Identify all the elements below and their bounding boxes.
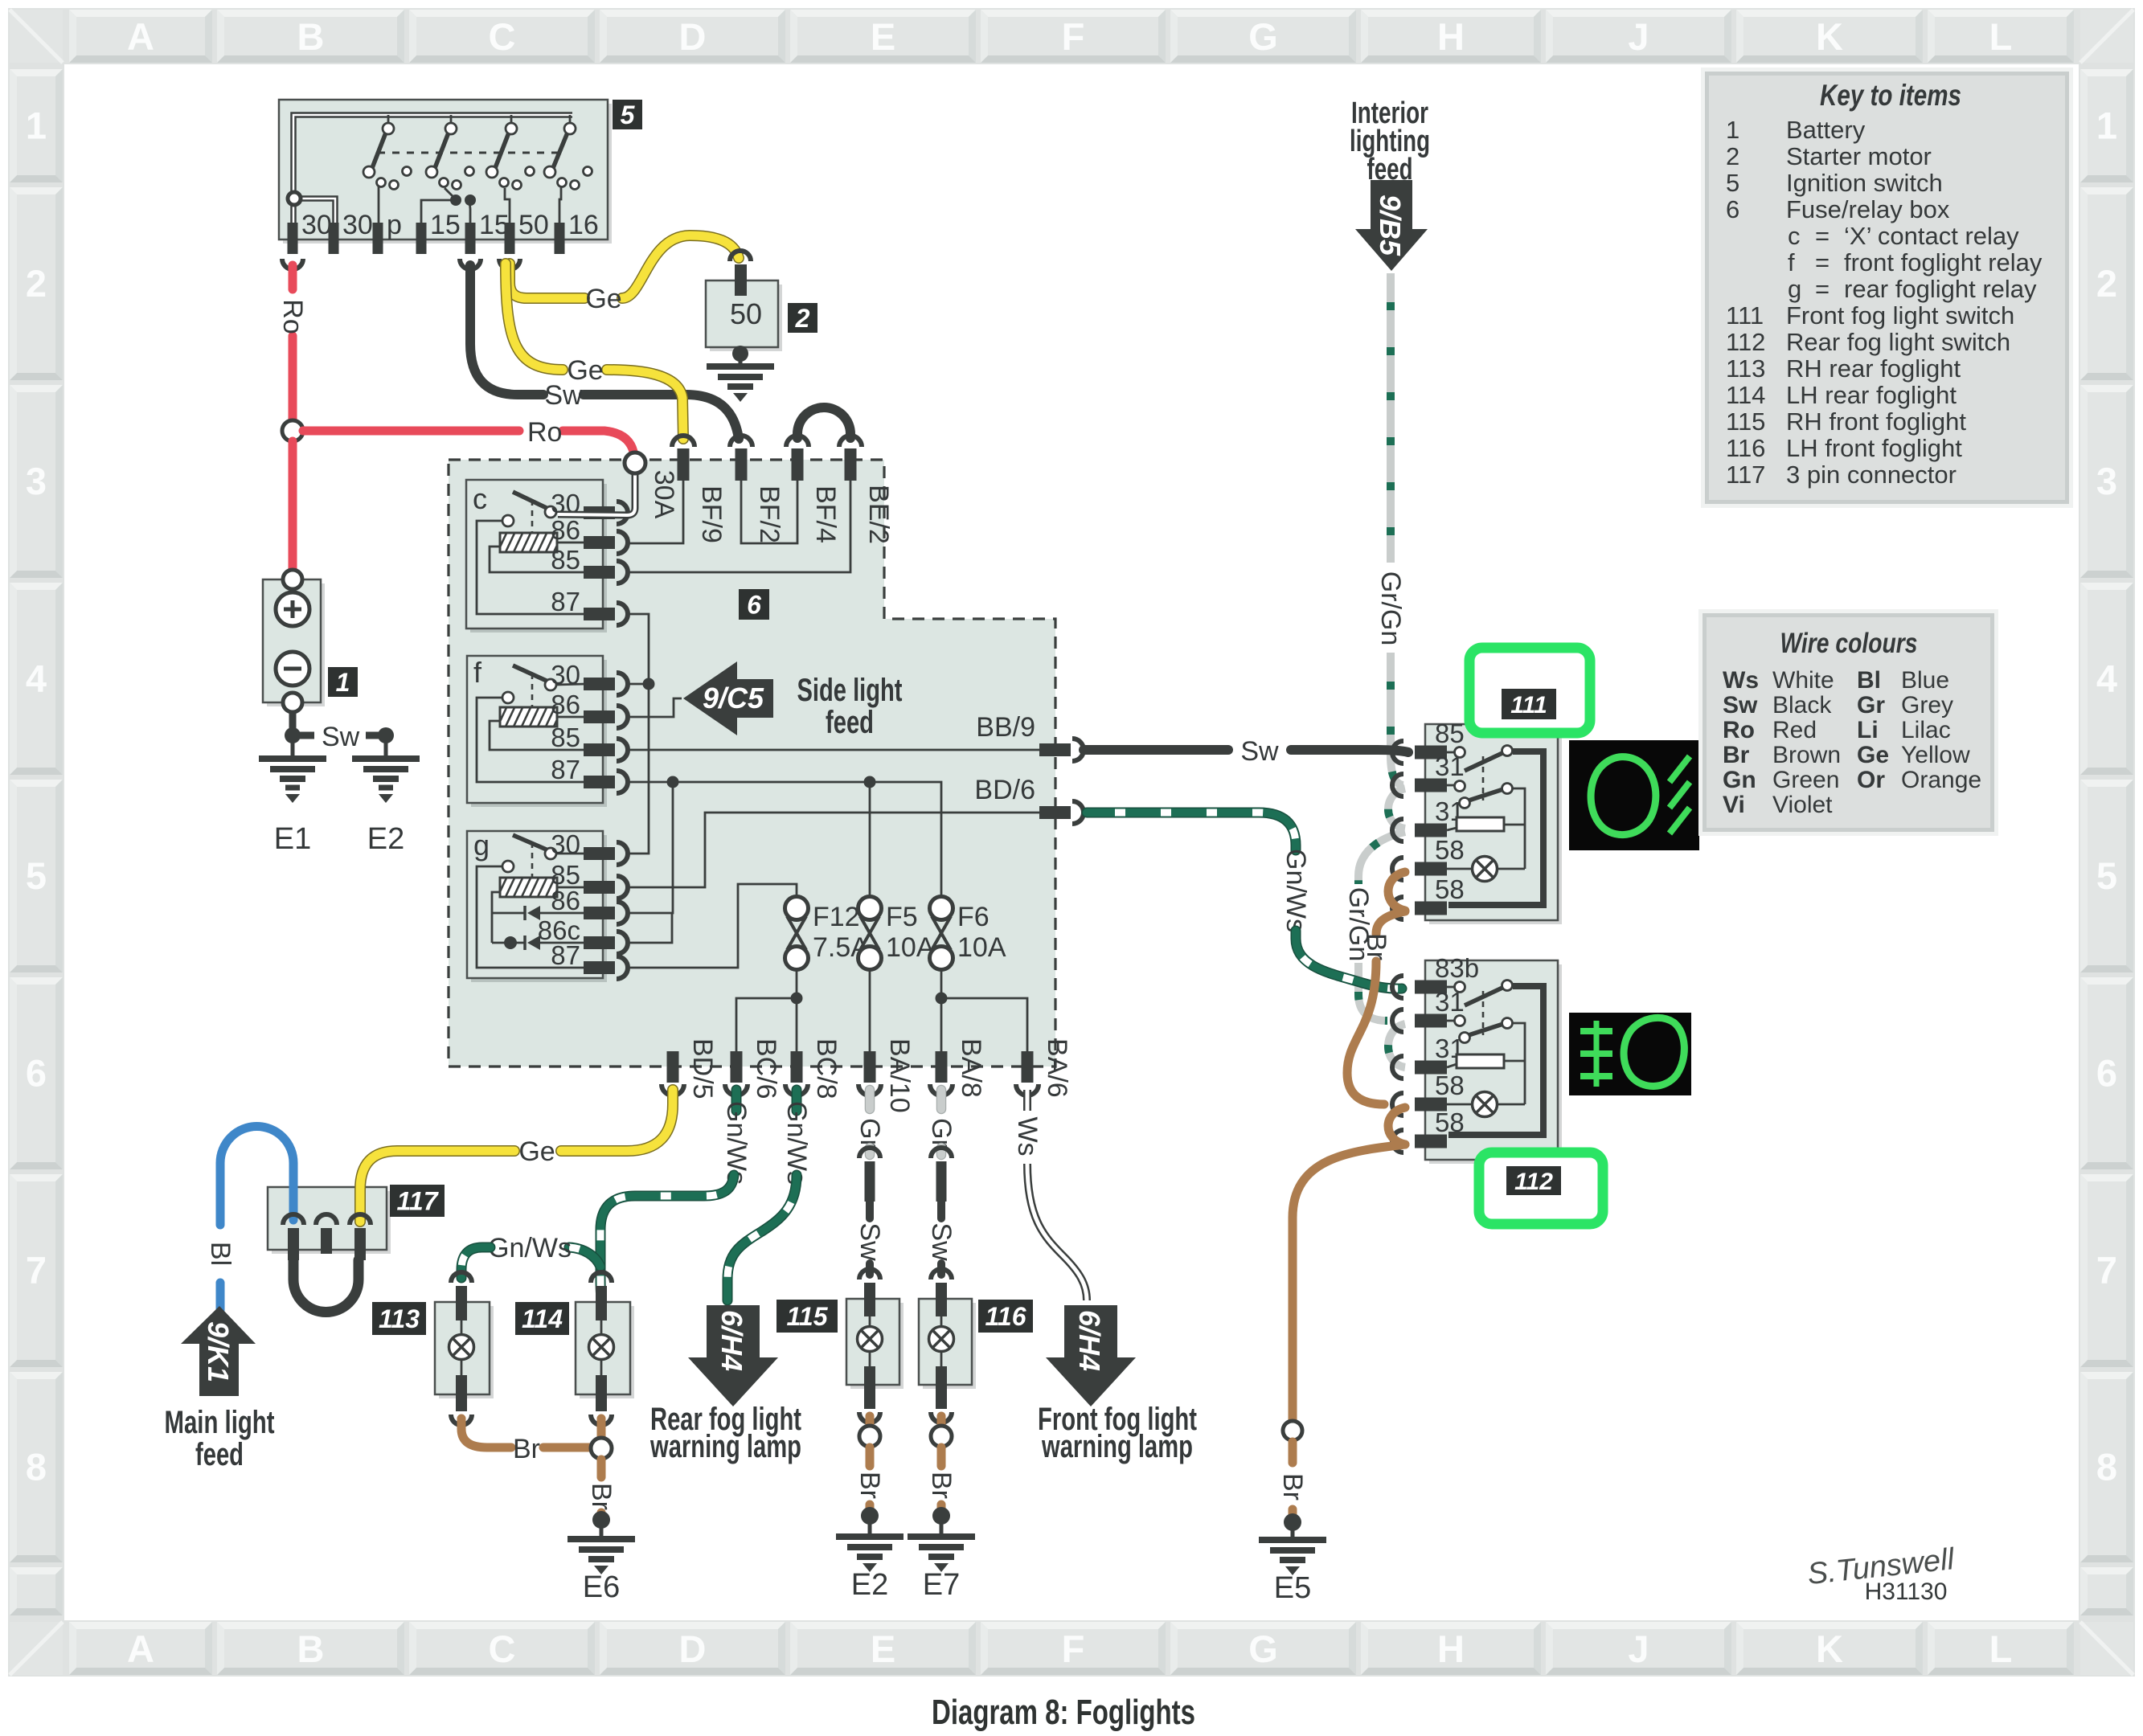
relay f pin 85 xyxy=(551,723,628,761)
wire Br to ground E6 xyxy=(586,1460,617,1529)
relay g switch xyxy=(502,835,585,877)
wire Ge yellow ignition 50 to starter xyxy=(510,235,739,314)
relay c coil xyxy=(489,531,563,554)
wire Bl blue main light feed to connector 117 xyxy=(205,1127,293,1311)
relay c switch xyxy=(502,492,556,533)
svg-text:3: 3 xyxy=(2096,460,2117,502)
ignition pins 30 30 p 15 15 50 16 xyxy=(288,210,599,254)
svg-text:116: 116 xyxy=(1726,434,1765,462)
svg-text:E2: E2 xyxy=(851,1568,888,1602)
switch 112 pin 83b xyxy=(1392,953,1479,998)
svg-text:Rear fog light switch: Rear fog light switch xyxy=(1786,328,2010,356)
RH front foglight 115 xyxy=(846,1269,904,1423)
svg-text:Sw: Sw xyxy=(1240,736,1279,767)
svg-text:K: K xyxy=(1816,1627,1843,1670)
arrow 9/B5 xyxy=(1355,180,1428,271)
caption xyxy=(932,1693,1195,1732)
ignition switch 5 xyxy=(279,100,612,244)
svg-text:A: A xyxy=(127,15,154,58)
svg-text:Br: Br xyxy=(586,1483,617,1510)
svg-text:6: 6 xyxy=(1726,195,1739,223)
svg-text:58: 58 xyxy=(1435,835,1465,865)
svg-text:2: 2 xyxy=(1726,142,1739,170)
svg-text:117: 117 xyxy=(1726,461,1765,489)
svg-text:BD/5: BD/5 xyxy=(687,1038,718,1099)
internal wire BF/2 to BF/4 xyxy=(741,481,797,543)
svg-text:30: 30 xyxy=(301,210,332,240)
label 5 xyxy=(613,100,642,129)
svg-text:Ro: Ro xyxy=(527,417,562,448)
switch 112 pin 58 xyxy=(1392,1071,1465,1116)
label 6 xyxy=(739,589,769,620)
wire Br 111 to 112 xyxy=(1347,911,1405,1104)
svg-text:86: 86 xyxy=(551,515,580,545)
svg-text:rear foglight relay: rear foglight relay xyxy=(1844,275,2037,303)
svg-text:BC/6: BC/6 xyxy=(751,1038,781,1099)
ignition internal wires to pins xyxy=(379,186,561,223)
wire Sw to front foglight x=1082 xyxy=(854,1202,885,1275)
label 114 xyxy=(515,1302,569,1335)
wire Gn/Ws BC/6 to rear foglights 113 114 xyxy=(600,1090,752,1297)
svg-text:15: 15 xyxy=(430,210,461,240)
svg-text:10A: 10A xyxy=(957,932,1006,963)
relay g pin 85 xyxy=(551,860,628,899)
svg-text:1: 1 xyxy=(2096,104,2117,147)
wire Ro red vertical from ignition 30 xyxy=(277,265,308,420)
svg-text:30: 30 xyxy=(551,660,580,690)
black jumper wire under 117 xyxy=(293,1260,359,1312)
front fog warning arrow 6/H4 xyxy=(1038,1305,1197,1464)
svg-text:c: c xyxy=(473,482,487,515)
svg-text:9/K1: 9/K1 xyxy=(202,1321,235,1382)
wire Gr BA/8 to inline connector xyxy=(926,1090,957,1155)
svg-text:117: 117 xyxy=(396,1187,439,1216)
ignition switch contacts xyxy=(363,115,592,190)
switch 111 pin 58 xyxy=(1392,874,1465,919)
relay g pin 86 xyxy=(551,886,628,924)
label 1 xyxy=(328,667,358,697)
wire Br 112 to ground E5 xyxy=(1277,1144,1405,1531)
svg-text:8: 8 xyxy=(26,1446,47,1488)
svg-text:Lilac: Lilac xyxy=(1901,717,1951,743)
fuse F6 10A xyxy=(930,897,1006,970)
svg-text:Gn: Gn xyxy=(1723,767,1756,793)
relay f box xyxy=(467,656,607,807)
svg-text:115: 115 xyxy=(786,1302,828,1331)
starter motor 2 xyxy=(706,251,782,351)
svg-text:86: 86 xyxy=(551,886,580,915)
svg-text:Fuse/relay box: Fuse/relay box xyxy=(1786,195,1950,223)
relay f pin 87 xyxy=(551,755,628,793)
svg-text:J: J xyxy=(1628,15,1649,58)
switch 111 pin 31 xyxy=(1392,751,1465,796)
svg-text:f: f xyxy=(1788,248,1795,276)
front fog icon panel xyxy=(1569,740,1699,850)
svg-text:Sw: Sw xyxy=(854,1222,885,1261)
svg-text:5: 5 xyxy=(26,854,47,897)
3 pin connector 117 pins xyxy=(283,1214,371,1260)
svg-text:BF/2: BF/2 xyxy=(754,485,785,543)
svg-text:87: 87 xyxy=(551,587,580,616)
svg-text:Ge: Ge xyxy=(1857,742,1889,768)
svg-text:Red: Red xyxy=(1772,717,1817,743)
label 2 xyxy=(788,303,817,333)
svg-text:J: J xyxy=(1628,1627,1649,1670)
svg-text:112: 112 xyxy=(1726,328,1765,356)
svg-text:Side light: Side light xyxy=(797,673,903,708)
node junction on Ro xyxy=(282,420,303,441)
svg-text:H: H xyxy=(1437,1627,1465,1670)
wire Gn/Ws branch to 113 xyxy=(461,1233,600,1278)
fuse/relay box 6 outline xyxy=(449,460,1055,1067)
inline connector on front foglight wire x=1082 xyxy=(859,1148,880,1202)
svg-text:6: 6 xyxy=(2096,1052,2117,1095)
svg-text:58: 58 xyxy=(1435,1071,1465,1100)
pin BC/6 xyxy=(725,1038,781,1099)
junction connector circle xyxy=(591,1438,612,1459)
internal wire relay c 87 to f 30 and g 30 xyxy=(627,614,655,854)
rear fog icon panel xyxy=(1569,1013,1691,1095)
svg-text:Ge: Ge xyxy=(567,355,603,386)
relay f pin 30 xyxy=(551,660,628,695)
svg-text:Battery: Battery xyxy=(1786,116,1866,144)
svg-text:F5: F5 xyxy=(886,902,918,932)
svg-text:10A: 10A xyxy=(886,932,935,963)
svg-text:Black: Black xyxy=(1772,692,1832,719)
svg-text:115: 115 xyxy=(1726,407,1765,436)
svg-text:30: 30 xyxy=(551,829,580,859)
switch 111 internals xyxy=(1447,746,1543,906)
svg-text:Gr: Gr xyxy=(1857,692,1885,719)
pin BA/10 xyxy=(858,1038,915,1113)
svg-text:30: 30 xyxy=(342,210,373,240)
wire Sw black ignition 15 to fusebox BF/2 xyxy=(470,265,739,439)
svg-text:Bl: Bl xyxy=(1857,667,1881,694)
LH rear foglight 114 xyxy=(576,1272,634,1425)
svg-text:BA/8: BA/8 xyxy=(956,1038,986,1098)
switch 111 pin 85 xyxy=(1392,719,1465,764)
wire Gr/Gn from 9/B5 down to switch 111 xyxy=(1375,273,1406,785)
svg-text:Br: Br xyxy=(513,1434,540,1464)
svg-text:30A: 30A xyxy=(649,470,679,519)
svg-text:F12: F12 xyxy=(813,902,860,932)
svg-text:g: g xyxy=(1788,275,1801,303)
svg-text:Yellow: Yellow xyxy=(1901,742,1970,768)
svg-text:E2: E2 xyxy=(367,822,404,856)
svg-text:A: A xyxy=(127,1627,154,1670)
pin BF/4 xyxy=(786,436,841,543)
wire Br loop 112 pin58 to pin58 xyxy=(1388,1108,1405,1144)
svg-text:9/B5: 9/B5 xyxy=(1374,194,1407,256)
ground E5 xyxy=(1259,1522,1326,1605)
wires below fuses to bottom pins xyxy=(736,969,1027,1051)
relay g coil xyxy=(489,876,563,899)
svg-text:LH rear foglight: LH rear foglight xyxy=(1786,381,1957,409)
relay f switch xyxy=(502,665,556,706)
svg-text:Main light: Main light xyxy=(165,1405,275,1440)
svg-text:C: C xyxy=(489,1627,516,1670)
svg-text:5: 5 xyxy=(2096,854,2117,897)
svg-text:111: 111 xyxy=(1726,301,1764,330)
svg-text:50: 50 xyxy=(518,210,549,240)
ground E2 xyxy=(352,735,420,856)
svg-text:F: F xyxy=(1062,15,1085,58)
ground E7 xyxy=(908,1516,975,1602)
wire Br front foglight to ground E7 xyxy=(926,1416,957,1525)
rear fog light switch 112 box xyxy=(1425,960,1562,1164)
svg-text:Gn/Ws: Gn/Ws xyxy=(488,1233,572,1263)
svg-text:Br: Br xyxy=(1277,1473,1308,1501)
ignition internal rail (white wire from pin 30) xyxy=(288,115,572,223)
internal wire BE/2 to relay c 85 xyxy=(627,481,850,572)
svg-text:LH front foglight: LH front foglight xyxy=(1786,434,1962,462)
relay c internal wires xyxy=(477,521,585,614)
svg-text:E: E xyxy=(871,1627,895,1670)
front fog light switch 111 box xyxy=(1425,724,1562,924)
svg-text:3 pin connector: 3 pin connector xyxy=(1786,461,1957,489)
wire Sw to front foglight x=1171 xyxy=(926,1202,957,1275)
wire Gn/Ws BD/6 to switch 112 pin 83b xyxy=(1087,813,1402,989)
wire Gr/Gn loop 111 pin31 to pin31 xyxy=(1388,788,1405,829)
svg-text:7: 7 xyxy=(2096,1249,2117,1292)
svg-text:87: 87 xyxy=(551,940,580,970)
svg-text:85: 85 xyxy=(551,723,580,752)
svg-text:113: 113 xyxy=(379,1304,420,1333)
svg-text:Ws: Ws xyxy=(1723,667,1759,694)
main light feed arrow 9/K1 xyxy=(165,1306,275,1472)
wire Sw black BB/9 to switch 111 pin 85 xyxy=(1084,736,1408,767)
label 115 xyxy=(776,1300,838,1333)
svg-text:Sw: Sw xyxy=(926,1222,957,1261)
svg-text:E1: E1 xyxy=(274,822,311,856)
pin BC/8 xyxy=(785,1038,842,1099)
svg-text:Ws: Ws xyxy=(1012,1116,1043,1156)
svg-text:Li: Li xyxy=(1857,717,1879,743)
inline connector on front foglight wire x=1171 xyxy=(931,1148,952,1202)
switch 111 pin 58 xyxy=(1392,835,1465,880)
svg-text:BF/9: BF/9 xyxy=(696,485,727,543)
internal wire relay f 87 to fuses F5 F6 and relay g 86 xyxy=(627,776,941,914)
svg-text:Front fog light switch: Front fog light switch xyxy=(1786,301,2014,330)
svg-text:feed: feed xyxy=(195,1437,244,1472)
switch 111 pin 31 xyxy=(1392,796,1465,841)
wire Br 113 to junction xyxy=(461,1419,590,1464)
relay f coil xyxy=(489,706,563,728)
svg-text:Br: Br xyxy=(926,1472,957,1499)
pin BF/9 xyxy=(672,436,727,543)
svg-text:1: 1 xyxy=(1726,116,1739,144)
svg-text:Ge: Ge xyxy=(585,284,621,314)
svg-text:6: 6 xyxy=(747,591,761,620)
internal wire BD/6 to relay g 85 xyxy=(627,813,1041,887)
svg-text:112: 112 xyxy=(1514,1169,1553,1195)
relay c pin 87 xyxy=(551,587,628,625)
svg-text:4: 4 xyxy=(26,657,47,700)
relay f pin 86 xyxy=(551,690,628,728)
svg-text:16: 16 xyxy=(568,210,599,240)
pin BF/2 xyxy=(730,436,785,543)
svg-text:5: 5 xyxy=(621,100,636,129)
fuse F12 7.5A xyxy=(785,897,870,970)
relay g pin 30 xyxy=(551,829,628,865)
svg-text:6/H4: 6/H4 xyxy=(715,1310,748,1371)
svg-text:83b: 83b xyxy=(1435,953,1479,983)
ground E2 xyxy=(836,1516,904,1602)
svg-text:BA/10: BA/10 xyxy=(884,1038,915,1113)
svg-text:1: 1 xyxy=(26,104,47,147)
svg-text:g: g xyxy=(473,829,490,862)
svg-text:85: 85 xyxy=(1435,719,1465,748)
wire Gn/Ws BC/8 to rear fog warning arrow xyxy=(727,1090,812,1300)
svg-text:Violet: Violet xyxy=(1772,792,1833,818)
svg-text:Orange: Orange xyxy=(1901,767,1981,793)
label 117 xyxy=(390,1185,445,1217)
svg-text:=: = xyxy=(1815,275,1830,303)
svg-text:D: D xyxy=(679,1627,707,1670)
svg-text:Key to items: Key to items xyxy=(1820,79,1961,112)
side light feed arrow 9/C5 xyxy=(683,661,903,740)
svg-text:E5: E5 xyxy=(1274,1571,1311,1605)
relay g pin 87 xyxy=(551,940,628,979)
wire Ws BA/6 to front fog warning arrow xyxy=(1012,1090,1087,1300)
internal wire side light feed to relay f 86 xyxy=(627,698,682,717)
internal wire BF/9 to relay c 86 xyxy=(627,481,683,543)
connector arcs under ignition pins xyxy=(282,259,520,269)
svg-text:Ge: Ge xyxy=(518,1136,555,1167)
black jumper wire BF/4 to BE/2 xyxy=(797,407,850,438)
svg-text:114: 114 xyxy=(1726,381,1765,409)
svg-text:Brown: Brown xyxy=(1772,742,1841,768)
svg-text:Diagram 8: Foglights: Diagram 8: Foglights xyxy=(932,1693,1195,1732)
svg-text:E6: E6 xyxy=(583,1570,620,1604)
pin BE/2 xyxy=(839,436,894,544)
svg-text:Starter motor: Starter motor xyxy=(1786,142,1932,170)
internal wire relay f 85 to BB/9 xyxy=(627,749,1041,751)
svg-text:Gn/Ws: Gn/Ws xyxy=(1280,849,1311,932)
switch 112 pin 31 xyxy=(1392,1034,1465,1079)
svg-text:BE/2: BE/2 xyxy=(863,485,894,544)
svg-text:Blue: Blue xyxy=(1901,667,1949,694)
starter ground xyxy=(707,346,774,402)
svg-text:H: H xyxy=(1437,15,1465,58)
svg-text:L: L xyxy=(1989,15,2013,58)
svg-text:7: 7 xyxy=(26,1249,47,1292)
svg-text:2: 2 xyxy=(26,262,47,305)
key to items box xyxy=(1701,68,2073,508)
svg-text:p: p xyxy=(387,210,402,240)
switch 112 internals xyxy=(1447,981,1543,1136)
switch 112 pin 31 xyxy=(1392,987,1465,1032)
svg-text:front foglight relay: front foglight relay xyxy=(1844,248,2043,276)
svg-text:K: K xyxy=(1816,15,1843,58)
svg-text:111: 111 xyxy=(1510,692,1547,719)
wire Ro red horizontal to fuse box 30A xyxy=(303,417,633,452)
svg-text:c: c xyxy=(1788,222,1801,250)
svg-text:E7: E7 xyxy=(923,1568,960,1602)
relay g pin 86c xyxy=(538,915,628,954)
wire Gr/Gn 111 to 112 xyxy=(1343,832,1405,1021)
RH rear foglight 113 xyxy=(435,1272,494,1425)
svg-text:87: 87 xyxy=(551,755,580,784)
svg-text:113: 113 xyxy=(1726,354,1765,383)
svg-text:50: 50 xyxy=(730,297,762,330)
svg-text:Ro: Ro xyxy=(1723,717,1755,743)
svg-text:Sw: Sw xyxy=(1723,692,1758,719)
switch 112 highlight box xyxy=(1479,1153,1603,1224)
svg-text:‘X’ contact relay: ‘X’ contact relay xyxy=(1844,222,2019,250)
svg-text:Gr/Gn: Gr/Gn xyxy=(1375,571,1406,646)
ground E1 xyxy=(259,735,326,856)
internal wire relay g 86c from f87 junction xyxy=(627,913,672,943)
label 113 xyxy=(372,1302,426,1335)
pin BA/6 xyxy=(1016,1038,1072,1098)
switch 112 pin 58 xyxy=(1392,1108,1465,1153)
svg-text:L: L xyxy=(1989,1627,2013,1670)
svg-text:5: 5 xyxy=(1726,169,1739,197)
svg-text:3: 3 xyxy=(26,460,47,502)
svg-text:H31130: H31130 xyxy=(1865,1578,1948,1605)
svg-text:Br: Br xyxy=(854,1472,885,1499)
wire Ge yellow ignition 50 to fusebox BF/9 xyxy=(506,264,683,439)
svg-text:RH front foglight: RH front foglight xyxy=(1786,407,1966,436)
pin BB/9 xyxy=(976,712,1084,761)
svg-text:F6: F6 xyxy=(957,902,990,932)
pin BD/6 xyxy=(974,775,1084,824)
svg-text:warning lamp: warning lamp xyxy=(1041,1429,1193,1464)
wire Ge yellow BD/5 to connector 117 xyxy=(360,1090,673,1222)
svg-text:9/C5: 9/C5 xyxy=(703,682,764,714)
svg-text:6: 6 xyxy=(26,1052,47,1095)
svg-text:Or: Or xyxy=(1857,767,1885,793)
svg-text:warning lamp: warning lamp xyxy=(649,1429,801,1464)
node 30A xyxy=(625,452,679,519)
svg-text:85: 85 xyxy=(551,545,580,575)
svg-text:feed: feed xyxy=(826,705,874,740)
pin BD/5 xyxy=(662,1038,718,1099)
svg-text:BC/8: BC/8 xyxy=(811,1038,842,1099)
relay c box xyxy=(466,480,607,633)
signature xyxy=(1806,1542,1957,1605)
svg-text:E: E xyxy=(871,15,895,58)
relay c pin 30 xyxy=(551,489,628,524)
svg-text:B: B xyxy=(297,15,325,58)
wire Gr BA/10 to inline connector xyxy=(854,1090,885,1155)
svg-text:Ignition switch: Ignition switch xyxy=(1786,169,1943,197)
svg-text:6/H4: 6/H4 xyxy=(1073,1310,1106,1371)
relay c pin 86 xyxy=(551,515,628,554)
svg-text:86: 86 xyxy=(551,690,580,719)
svg-text:2: 2 xyxy=(2096,262,2117,305)
svg-text:1: 1 xyxy=(336,668,350,697)
switch 111 highlight box xyxy=(1469,648,1590,733)
svg-text:BD/6: BD/6 xyxy=(974,775,1035,805)
svg-text:D: D xyxy=(679,15,707,58)
wire colours box xyxy=(1698,609,1998,836)
svg-text:Br: Br xyxy=(1361,933,1391,960)
svg-text:Sw: Sw xyxy=(322,722,360,752)
svg-text:Green: Green xyxy=(1772,767,1839,793)
wire Br loop 111 pin58 to pin58 xyxy=(1388,872,1405,911)
svg-text:58: 58 xyxy=(1435,874,1465,904)
white wire 30A node to relay c pin 30 xyxy=(558,473,635,515)
svg-text:Bl: Bl xyxy=(205,1242,236,1266)
svg-text:RH rear foglight: RH rear foglight xyxy=(1786,354,1961,383)
svg-text:BB/9: BB/9 xyxy=(976,712,1035,743)
svg-text:G: G xyxy=(1248,1627,1278,1670)
battery 1 xyxy=(263,570,325,712)
svg-text:2: 2 xyxy=(795,304,810,333)
svg-text:B: B xyxy=(297,1627,325,1670)
